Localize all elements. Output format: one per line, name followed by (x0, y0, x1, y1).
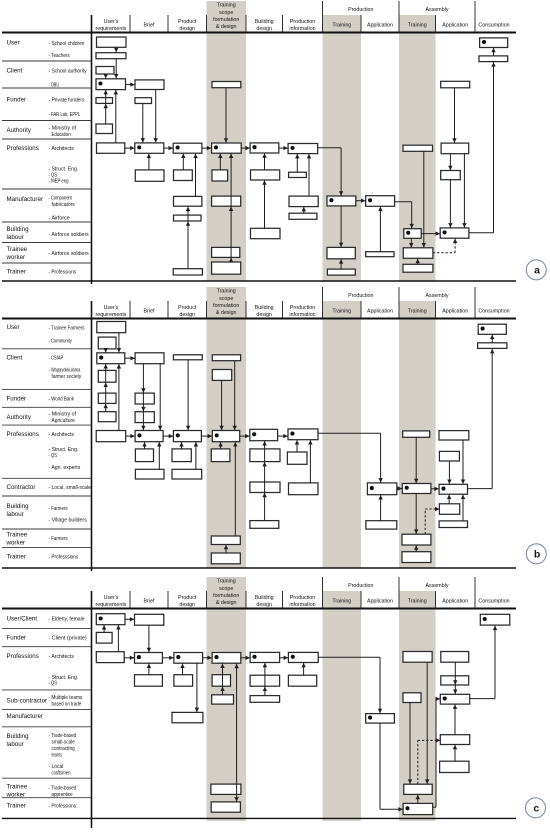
svg-text:- Architects: - Architects (49, 432, 75, 438)
svg-text:Trainee: Trainee (7, 784, 28, 791)
svg-text:- Teachers: - Teachers (49, 53, 71, 59)
svg-text:Sub-contractor: Sub-contractor (7, 698, 48, 705)
svg-text:- Village builders: - Village builders (49, 518, 88, 524)
svg-text:- School children: - School children (49, 41, 85, 47)
svg-text:labour: labour (7, 234, 24, 241)
svg-text:- Agri. experts: - Agri. experts (49, 465, 81, 471)
svg-text:formulation: formulation (213, 17, 239, 23)
svg-text:craftsmen: craftsmen (52, 771, 71, 777)
svg-text:formulation: formulation (213, 593, 239, 599)
svg-text:Production: Production (348, 583, 373, 589)
svg-text:Trainer: Trainer (7, 802, 26, 809)
svg-text:design: design (256, 26, 272, 32)
svg-text:Funder: Funder (7, 96, 27, 103)
svg-text:information: information (289, 312, 315, 318)
svg-text:- Farmers: - Farmers (49, 506, 68, 512)
svg-text:- Architects: - Architects (49, 146, 75, 152)
svg-text:- FAR Lab, EPPL: - FAR Lab, EPPL (49, 112, 81, 118)
svg-text:Training: Training (408, 309, 427, 315)
svg-text:- Component: - Component (49, 196, 73, 202)
svg-text:Production: Production (348, 7, 373, 13)
svg-text:labour: labour (7, 511, 24, 518)
svg-text:Assembly: Assembly (426, 293, 449, 299)
svg-text:- Airforce soldiers: - Airforce soldiers (49, 251, 90, 257)
svg-text:- Professsions: - Professsions (49, 554, 79, 560)
svg-text:Agriculture: Agriculture (52, 418, 75, 424)
svg-text:Application: Application (367, 23, 393, 29)
svg-text:- Multiple teams: - Multiple teams (49, 695, 83, 701)
svg-text:Application: Application (442, 309, 468, 315)
svg-text:Brief: Brief (144, 309, 155, 315)
svg-text:Training: Training (408, 23, 427, 29)
svg-text:- QS: - QS (49, 453, 58, 459)
svg-text:- Private funders: - Private funders (49, 97, 85, 103)
svg-text:Professions: Professions (7, 431, 39, 438)
svg-text:based on trade: based on trade (52, 702, 82, 708)
svg-text:Production: Production (290, 305, 315, 311)
svg-text:Client: Client (7, 355, 23, 362)
svg-text:design: design (179, 312, 195, 318)
svg-text:Assembly: Assembly (426, 583, 449, 589)
svg-text:small-scale: small-scale (52, 739, 75, 745)
svg-text:Authority: Authority (7, 127, 32, 134)
svg-text:Application: Application (442, 599, 468, 605)
svg-text:design: design (179, 26, 195, 32)
svg-text:User: User (7, 40, 20, 47)
svg-text:- Architects: - Architects (49, 654, 75, 660)
svg-text:- Local: - Local (49, 764, 64, 770)
svg-text:Funder: Funder (7, 634, 27, 641)
svg-text:Contractor: Contractor (7, 484, 36, 491)
svg-text:worker: worker (6, 540, 26, 547)
svg-text:- Professions: - Professions (49, 270, 77, 276)
svg-text:teams: teams (52, 752, 63, 758)
svg-text:- World Bank: - World Bank (49, 397, 75, 403)
svg-text:- Ministry of: - Ministry of (49, 126, 77, 132)
svg-text:- Professions: - Professions (49, 803, 77, 809)
svg-text:User/Client: User/Client (7, 615, 38, 622)
svg-text:- OBU: - OBU (49, 82, 60, 88)
svg-text:requirements: requirements (96, 602, 127, 608)
svg-text:& design: & design (216, 310, 237, 316)
svg-text:requirements: requirements (96, 26, 127, 32)
svg-text:Manufacturer: Manufacturer (7, 713, 43, 720)
svg-text:Manufacturer: Manufacturer (7, 196, 43, 203)
svg-text:Trainer: Trainer (7, 553, 26, 560)
svg-text:a: a (534, 264, 540, 276)
svg-text:Product: Product (178, 305, 197, 311)
svg-text:Building: Building (7, 733, 30, 740)
svg-text:- Elderly, female: - Elderly, female (49, 616, 85, 622)
svg-text:Building: Building (7, 503, 30, 510)
svg-text:Training: Training (332, 23, 351, 29)
svg-text:- Ministry of: - Ministry of (49, 412, 77, 418)
svg-text:Product: Product (178, 19, 197, 25)
svg-text:Consumption: Consumption (478, 309, 509, 315)
svg-text:Production: Production (290, 19, 315, 25)
svg-text:- Airforce soldiers: - Airforce soldiers (49, 232, 90, 238)
svg-text:scope: scope (219, 296, 233, 302)
svg-text:Application: Application (367, 599, 393, 605)
svg-text:Trainer: Trainer (7, 269, 26, 276)
svg-text:Trainee: Trainee (7, 246, 28, 253)
svg-text:Application: Application (367, 309, 393, 315)
svg-text:- Wagayokkulama: - Wagayokkulama (49, 368, 81, 374)
svg-text:Professions: Professions (7, 145, 39, 152)
svg-text:Brief: Brief (144, 23, 155, 29)
svg-text:User's: User's (104, 19, 119, 25)
svg-text:formulation: formulation (213, 303, 239, 309)
svg-text:fabricators: fabricators (52, 202, 76, 208)
svg-text:Training: Training (332, 309, 351, 315)
svg-text:scope: scope (219, 10, 233, 16)
svg-text:- Farmers: - Farmers (49, 536, 68, 542)
svg-text:& design: & design (216, 24, 237, 30)
svg-text:c: c (533, 802, 539, 814)
svg-text:& design: & design (216, 600, 237, 606)
svg-text:Building: Building (255, 305, 274, 311)
svg-text:User: User (7, 324, 20, 331)
svg-text:Building: Building (7, 226, 30, 233)
svg-text:- Airforce: - Airforce (49, 216, 70, 222)
svg-text:Consumption: Consumption (478, 23, 509, 29)
svg-text:Production: Production (290, 595, 315, 601)
svg-text:contracting: contracting (52, 746, 75, 752)
svg-text:- Trainee Farmers: - Trainee Farmers (49, 326, 85, 332)
svg-text:- MEP eng.: - MEP eng. (49, 179, 70, 185)
svg-text:Training: Training (217, 289, 236, 295)
svg-text:labour: labour (7, 741, 24, 748)
svg-text:- QS: - QS (49, 681, 58, 687)
svg-text:design: design (179, 602, 195, 608)
svg-text:Client: Client (7, 68, 23, 75)
svg-text:design: design (256, 602, 272, 608)
svg-text:Building: Building (255, 19, 274, 25)
svg-text:Trainee: Trainee (7, 532, 28, 539)
svg-text:Consumption: Consumption (478, 599, 509, 605)
svg-text:- Local, small-scale: - Local, small-scale (49, 485, 91, 491)
svg-text:information: information (289, 26, 315, 32)
svg-text:Training: Training (217, 579, 236, 585)
svg-text:Product: Product (178, 595, 197, 601)
svg-text:Training: Training (408, 599, 427, 605)
svg-text:Funder: Funder (7, 396, 27, 403)
svg-text:User's: User's (104, 305, 119, 311)
svg-text:Application: Application (442, 23, 468, 29)
svg-text:worker: worker (6, 254, 26, 261)
svg-text:- School authority: - School authority (49, 69, 88, 75)
svg-text:- CSIAP: - CSIAP (49, 356, 64, 362)
svg-text:- Trade-based: - Trade-based (49, 786, 77, 792)
svg-text:farmer society: farmer society (52, 374, 82, 380)
svg-text:Training: Training (332, 599, 351, 605)
svg-text:b: b (534, 548, 540, 560)
svg-text:design: design (256, 312, 272, 318)
svg-text:- Community: - Community (49, 339, 73, 345)
svg-text:User's: User's (104, 595, 119, 601)
svg-text:worker: worker (6, 792, 26, 799)
svg-text:Assembly: Assembly (426, 7, 449, 13)
svg-text:Brief: Brief (144, 599, 155, 605)
svg-text:Professions: Professions (7, 653, 39, 660)
svg-text:Authority: Authority (7, 414, 32, 421)
svg-text:requirements: requirements (96, 312, 127, 318)
svg-text:- Client (private): - Client (private) (49, 635, 87, 641)
svg-text:scope: scope (219, 586, 233, 592)
svg-text:Building: Building (255, 595, 274, 601)
svg-text:apprentice: apprentice (52, 792, 73, 798)
svg-text:Education: Education (52, 132, 71, 138)
svg-text:Training: Training (217, 3, 236, 9)
svg-text:- Trade-based: - Trade-based (49, 733, 77, 739)
svg-text:Production: Production (348, 293, 373, 299)
svg-text:information: information (289, 602, 315, 608)
